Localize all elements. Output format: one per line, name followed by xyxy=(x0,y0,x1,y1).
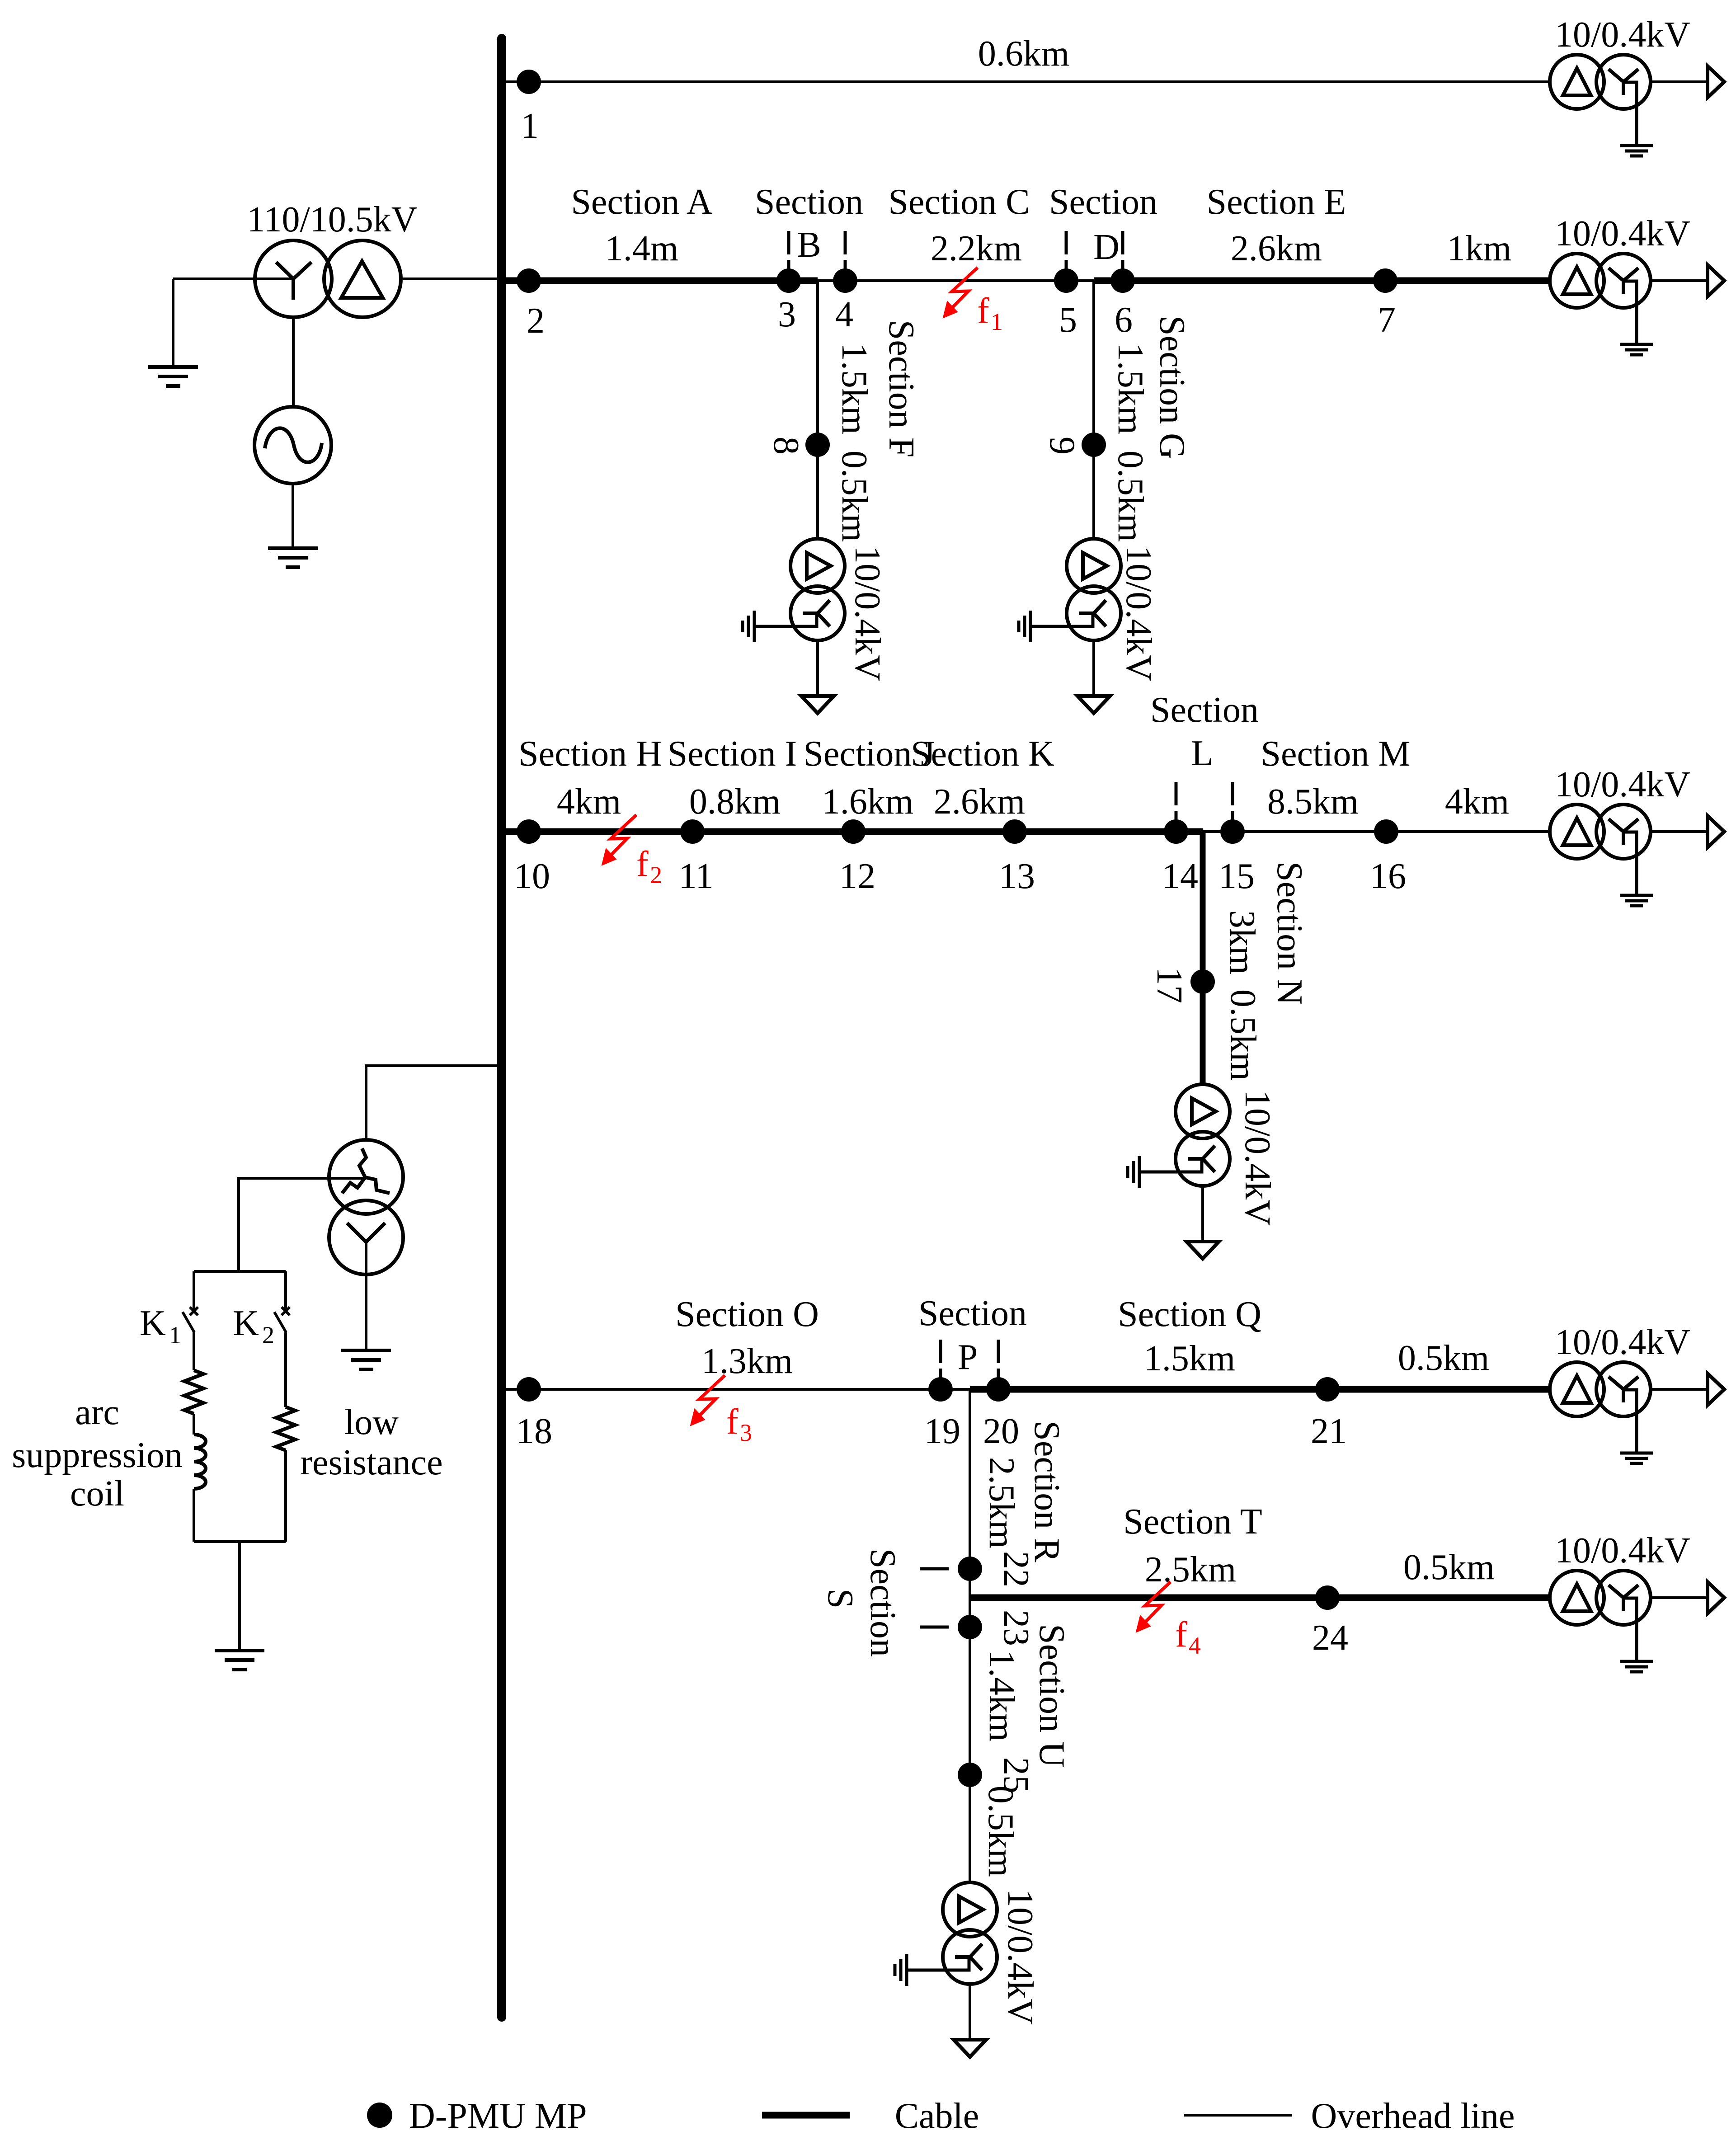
label K1 xyxy=(140,1303,181,1349)
svg-text:L: L xyxy=(1191,734,1214,773)
label 1km xyxy=(1447,229,1511,268)
wire feeder3 cable Sections H-K xyxy=(506,828,1203,835)
label Section Q xyxy=(1118,1294,1261,1378)
svg-text:17: 17 xyxy=(1149,967,1189,1003)
svg-text:4: 4 xyxy=(835,295,853,334)
fault f4 lightning arrow xyxy=(1136,1582,1171,1632)
node 1 D-PMU MP xyxy=(517,70,541,94)
label node 13 xyxy=(999,856,1035,896)
svg-text:1.3km: 1.3km xyxy=(701,1341,793,1381)
node 8 D-PMU MP xyxy=(805,433,830,457)
label 10/0.4kV feeder5 xyxy=(1555,1531,1690,1571)
wire T0 neutral to generator xyxy=(292,317,295,407)
svg-text:0.5km: 0.5km xyxy=(834,451,874,542)
svg-text:Section N: Section N xyxy=(1270,861,1309,1005)
svg-text:2: 2 xyxy=(650,861,662,889)
svg-text:21: 21 xyxy=(1311,1411,1347,1451)
svg-text:4km: 4km xyxy=(557,782,621,822)
main 10.5kV busbar xyxy=(497,38,506,2017)
label Section C xyxy=(888,182,1030,268)
wire generator to ground xyxy=(292,484,294,548)
node 11 D-PMU MP xyxy=(680,819,705,844)
svg-text:Section: Section xyxy=(1049,182,1157,222)
svg-text:Section: Section xyxy=(918,1294,1027,1333)
node 24 D-PMU MP xyxy=(1315,1585,1340,1610)
ground generator neutral xyxy=(268,548,318,567)
label node 7 xyxy=(1378,300,1396,340)
svg-text:Section M: Section M xyxy=(1261,734,1410,774)
svg-text:10/0.4kV: 10/0.4kV xyxy=(1555,765,1690,804)
svg-text:0.5km: 0.5km xyxy=(981,1786,1021,1877)
node 9 D-PMU MP xyxy=(1082,433,1106,457)
svg-text:0.5km: 0.5km xyxy=(1398,1338,1489,1378)
label node 11 xyxy=(678,856,713,896)
svg-text:f: f xyxy=(636,844,649,884)
label 0.5km branch F xyxy=(834,451,874,542)
svg-text:suppression: suppression xyxy=(12,1435,183,1475)
svg-text:1.4km: 1.4km xyxy=(982,1650,1021,1741)
label node 25 xyxy=(996,1757,1036,1793)
svg-text:Section E: Section E xyxy=(1207,182,1346,222)
svg-text:Section Q: Section Q xyxy=(1118,1294,1261,1334)
label node 6 xyxy=(1115,300,1133,340)
node 20 D-PMU MP xyxy=(986,1377,1011,1402)
svg-text:20: 20 xyxy=(983,1411,1019,1451)
svg-text:Overhead line: Overhead line xyxy=(1311,2096,1515,2136)
node 21 D-PMU MP xyxy=(1315,1377,1340,1402)
node 2 D-PMU MP xyxy=(517,268,541,293)
label Section U xyxy=(1032,1624,1072,1768)
wire feeder2 overhead Section C xyxy=(818,279,1094,282)
transformer TR3 10/0.4kV with ground and load arrow xyxy=(1550,804,1724,906)
svg-text:110/10.5kV: 110/10.5kV xyxy=(247,200,417,240)
label 10/0.4kV feeder1 xyxy=(1555,15,1690,55)
label Section O xyxy=(675,1294,819,1381)
svg-text:4km: 4km xyxy=(1445,782,1509,822)
label Section M xyxy=(1261,734,1410,822)
label 2.5km Section R xyxy=(982,1457,1021,1548)
svg-text:23: 23 xyxy=(996,1610,1036,1646)
label Section N xyxy=(1270,861,1309,1005)
label 10/0.4kV branch G xyxy=(1119,546,1158,681)
wire feeder1 overhead line 0.6km xyxy=(506,80,1550,83)
svg-text:1: 1 xyxy=(521,106,539,146)
label node 1 xyxy=(521,106,539,146)
switch K1 blade xyxy=(183,1312,194,1332)
label node 8 xyxy=(766,437,806,455)
label Section R xyxy=(1027,1421,1067,1562)
node 19 D-PMU MP xyxy=(928,1377,953,1402)
svg-text:10/0.4kV: 10/0.4kV xyxy=(1119,546,1158,681)
transformer TRF 10/0.4kV with ground and load arrow xyxy=(743,539,845,713)
fault f3 lightning arrow xyxy=(691,1375,725,1425)
label f3 xyxy=(726,1402,752,1446)
svg-text:10/0.4kV: 10/0.4kV xyxy=(1555,15,1690,55)
svg-text:1.6km: 1.6km xyxy=(822,782,913,822)
svg-text:1km: 1km xyxy=(1447,229,1511,268)
svg-text:1: 1 xyxy=(169,1322,181,1349)
svg-text:Cable: Cable xyxy=(895,2096,979,2136)
label Section G xyxy=(1152,315,1192,459)
ground grounding-transformer neutral xyxy=(341,1350,391,1369)
wire branch Section N cable xyxy=(1200,832,1206,1084)
label 10/0.4kV feeder3 xyxy=(1555,765,1690,804)
transformer TRU 10/0.4kV with ground and load arrow xyxy=(895,1882,997,2057)
transformer T0 delta winding symbol xyxy=(341,261,383,298)
label node 3 xyxy=(778,295,796,334)
resistor of arc suppression branch xyxy=(184,1370,203,1414)
node 4 D-PMU MP xyxy=(833,268,857,293)
wire feeder2 cable Section A-B xyxy=(506,278,818,284)
wire HV-in to transformer Y centre xyxy=(173,278,293,280)
svg-text:3: 3 xyxy=(778,295,796,334)
label 1.5km Section F xyxy=(834,343,874,434)
legend label Overhead line xyxy=(1311,2096,1515,2136)
label node 12 xyxy=(839,856,875,896)
svg-text:2.6km: 2.6km xyxy=(934,782,1025,822)
svg-text:K: K xyxy=(140,1303,166,1343)
label node 17 xyxy=(1149,967,1189,1003)
svg-text:0.5km: 0.5km xyxy=(1223,989,1263,1081)
svg-text:Section K: Section K xyxy=(911,734,1054,774)
label Section E xyxy=(1207,182,1346,268)
inductor arc suppression coil xyxy=(194,1435,206,1489)
label Section K xyxy=(911,734,1054,822)
label 110/10.5kV xyxy=(247,200,417,240)
fault f1 lightning arrow xyxy=(943,268,978,318)
generator G1 circle xyxy=(254,407,331,484)
label f2 xyxy=(636,844,662,889)
svg-text:13: 13 xyxy=(999,856,1035,896)
label node 19 xyxy=(924,1411,960,1451)
wire branch Section F xyxy=(816,281,819,539)
label f4 xyxy=(1175,1615,1201,1659)
grounding transformer secondary circle (Y) xyxy=(329,1200,403,1275)
wire K1 stub xyxy=(193,1271,195,1310)
label 0.5km branch N xyxy=(1223,989,1263,1081)
transformer TRG 10/0.4kV with ground and load arrow xyxy=(1019,539,1121,713)
svg-text:1.4m: 1.4m xyxy=(605,229,678,268)
label 4km right xyxy=(1445,782,1509,822)
svg-text:B: B xyxy=(797,225,821,265)
svg-text:P: P xyxy=(958,1337,978,1377)
label 0.5km branch G xyxy=(1110,451,1150,542)
svg-text:0.5km: 0.5km xyxy=(1110,451,1150,542)
svg-text:Section: Section xyxy=(863,1548,903,1657)
svg-text:0.6km: 0.6km xyxy=(978,34,1069,74)
svg-text:2: 2 xyxy=(527,301,545,341)
svg-text:4: 4 xyxy=(1189,1632,1201,1659)
label 10/0.4kV branch U xyxy=(1000,1889,1040,2025)
svg-text:0.8km: 0.8km xyxy=(689,782,781,822)
svg-text:10/0.4kV: 10/0.4kV xyxy=(1555,1322,1690,1362)
wire branch Section G xyxy=(1092,281,1095,539)
transformer TR4 10/0.4kV with ground and load arrow xyxy=(1550,1362,1724,1463)
svg-text:Section G: Section G xyxy=(1152,315,1192,459)
svg-text:f: f xyxy=(1175,1615,1187,1655)
label K2 xyxy=(233,1303,274,1349)
node 3 D-PMU MP xyxy=(776,268,801,293)
svg-text:8.5km: 8.5km xyxy=(1267,782,1359,822)
svg-text:19: 19 xyxy=(924,1411,960,1451)
label Section S xyxy=(820,1548,903,1657)
legend label Cable xyxy=(895,2096,979,2136)
svg-text:f: f xyxy=(726,1402,739,1442)
svg-text:resistance: resistance xyxy=(300,1443,442,1482)
svg-text:10: 10 xyxy=(514,856,550,896)
switch K1 contact mark xyxy=(190,1307,198,1315)
node 14 D-PMU MP xyxy=(1164,819,1188,844)
label 10/0.4kV branch N xyxy=(1237,1090,1277,1226)
node 6 D-PMU MP xyxy=(1110,268,1135,293)
svg-text:7: 7 xyxy=(1378,300,1396,340)
label f1 xyxy=(977,291,1003,335)
svg-text:5: 5 xyxy=(1059,300,1077,340)
label 1.4km Section U xyxy=(982,1650,1021,1741)
svg-text:S: S xyxy=(820,1589,860,1609)
wire K2 to resistor xyxy=(284,1332,287,1407)
label 0.6km xyxy=(978,34,1069,74)
svg-text:12: 12 xyxy=(839,856,875,896)
svg-text:10/0.4kV: 10/0.4kV xyxy=(847,546,887,681)
node 10 D-PMU MP xyxy=(517,819,541,844)
svg-text:K: K xyxy=(233,1303,259,1343)
wire Y neutral to ground xyxy=(365,1242,367,1350)
svg-text:Section I: Section I xyxy=(668,734,797,774)
node 17 D-PMU MP xyxy=(1190,969,1215,994)
transformer TR1 10/0.4kV with ground and load arrow xyxy=(1550,55,1724,156)
svg-text:2.5km: 2.5km xyxy=(982,1457,1021,1548)
label Section I xyxy=(668,734,797,822)
svg-text:10/0.4kV: 10/0.4kV xyxy=(1237,1090,1277,1226)
svg-text:Section O: Section O xyxy=(675,1294,819,1334)
label Section B xyxy=(755,182,863,265)
svg-text:0.5km: 0.5km xyxy=(1403,1548,1495,1587)
label node 10 xyxy=(514,856,550,896)
wire parallel top bar xyxy=(194,1270,286,1273)
svg-text:15: 15 xyxy=(1218,856,1255,896)
svg-text:3: 3 xyxy=(740,1419,752,1446)
node 5 D-PMU MP xyxy=(1054,268,1078,293)
svg-text:1.5km: 1.5km xyxy=(834,343,874,434)
svg-text:D: D xyxy=(1093,227,1120,267)
label Section T xyxy=(1123,1502,1262,1590)
svg-text:11: 11 xyxy=(678,856,713,896)
svg-text:2.6km: 2.6km xyxy=(1231,229,1322,268)
label Section P xyxy=(918,1294,1027,1377)
svg-text:9: 9 xyxy=(1042,437,1082,455)
wire K2 stub xyxy=(284,1271,287,1310)
node 7 D-PMU MP xyxy=(1373,268,1397,293)
svg-text:low: low xyxy=(344,1402,399,1442)
svg-text:Section C: Section C xyxy=(888,182,1030,222)
switch K2 blade xyxy=(274,1312,286,1332)
svg-text:10/0.4kV: 10/0.4kV xyxy=(1555,1531,1690,1571)
svg-text:14: 14 xyxy=(1162,856,1198,896)
label 0.5km branch U xyxy=(981,1786,1021,1877)
section P boundary dashes xyxy=(941,1340,998,1379)
svg-text:16: 16 xyxy=(1370,856,1406,896)
switch K2 contact mark xyxy=(282,1307,290,1315)
svg-text:1.5km: 1.5km xyxy=(1144,1339,1235,1378)
svg-text:18: 18 xyxy=(516,1411,552,1451)
svg-text:Section F: Section F xyxy=(881,320,921,457)
label 0.5km feeder4 xyxy=(1398,1338,1489,1378)
label 3km Section N xyxy=(1222,910,1262,974)
section D boundary dashes xyxy=(1066,231,1123,270)
svg-text:Section H: Section H xyxy=(518,734,662,774)
svg-text:2.2km: 2.2km xyxy=(931,229,1022,268)
svg-text:Section T: Section T xyxy=(1123,1502,1262,1542)
legend cable sample xyxy=(762,2112,850,2119)
label Section A xyxy=(571,182,713,268)
wire resistor to coil xyxy=(193,1414,195,1435)
node 15 D-PMU MP xyxy=(1220,819,1245,844)
svg-text:Section A: Section A xyxy=(571,182,713,222)
label 10/0.4kV feeder2 xyxy=(1555,214,1690,254)
label node 5 xyxy=(1059,300,1077,340)
generator G1 sine symbol xyxy=(265,428,322,462)
wire feeder2 cable Section D-E 1km xyxy=(1094,278,1550,284)
label Section F xyxy=(881,320,921,457)
wire parallel bottom bar xyxy=(194,1540,286,1543)
wire bottom bar to ground xyxy=(238,1542,241,1651)
node 22 D-PMU MP xyxy=(958,1557,982,1581)
label arc suppression coil xyxy=(12,1392,183,1514)
legend overhead line sample xyxy=(1184,2114,1292,2117)
wire T0 to busbar xyxy=(401,278,497,280)
label node 18 xyxy=(516,1411,552,1451)
svg-text:8: 8 xyxy=(766,437,806,455)
wire feeder3 overhead Section M 4km xyxy=(1203,830,1550,833)
label node 22 xyxy=(996,1551,1036,1587)
legend label D-PMU MP xyxy=(409,2096,587,2136)
svg-text:10/0.4kV: 10/0.4kV xyxy=(1000,1889,1040,2025)
label node 16 xyxy=(1370,856,1406,896)
svg-text:coil: coil xyxy=(70,1474,124,1514)
node 18 D-PMU MP xyxy=(517,1377,541,1402)
label node 15 xyxy=(1218,856,1255,896)
grounding transformer Y symbol xyxy=(347,1223,385,1242)
svg-text:arc: arc xyxy=(75,1392,119,1432)
label 1.5km Section G xyxy=(1110,343,1150,434)
label node 23 xyxy=(996,1610,1036,1646)
svg-text:3km: 3km xyxy=(1222,910,1262,974)
label node 21 xyxy=(1311,1411,1347,1451)
section B boundary dashes xyxy=(789,231,845,270)
svg-text:24: 24 xyxy=(1312,1618,1348,1658)
label Section H xyxy=(518,734,662,822)
ground of K branches xyxy=(215,1651,264,1670)
svg-text:1: 1 xyxy=(991,308,1003,335)
label node 9 xyxy=(1042,437,1082,455)
svg-text:2: 2 xyxy=(262,1322,274,1349)
svg-text:Section: Section xyxy=(1150,690,1259,730)
transformer T0 Y winding symbol xyxy=(276,262,311,300)
wire feeder5 cable Section T xyxy=(970,1595,1550,1601)
wire K2 resistor to bottom bar xyxy=(284,1450,287,1542)
grounding transformer crack symbol xyxy=(342,1148,390,1193)
fault f2 lightning arrow xyxy=(602,815,636,865)
wire K1 to coil branch xyxy=(193,1332,195,1370)
svg-text:6: 6 xyxy=(1115,300,1133,340)
svg-text:D-PMU MP: D-PMU MP xyxy=(409,2096,587,2136)
resistor low resistance branch xyxy=(276,1407,295,1450)
transformer TR5 10/0.4kV with ground and load arrow xyxy=(1550,1571,1724,1672)
node 12 D-PMU MP xyxy=(841,819,866,844)
wire branch Section S-U xyxy=(969,1598,971,1882)
svg-text:10/0.4kV: 10/0.4kV xyxy=(1555,214,1690,254)
label Section D xyxy=(1049,182,1157,267)
wire coil to bottom bar xyxy=(193,1489,195,1542)
label node 24 xyxy=(1312,1618,1348,1658)
node 16 D-PMU MP xyxy=(1374,819,1398,844)
transformer T0 primary circle (Y) xyxy=(255,240,332,317)
label node 14 xyxy=(1162,856,1198,896)
wire bus to grounding transformer xyxy=(366,1066,497,1141)
section L boundary dashes xyxy=(1176,782,1233,821)
transformer TRN 10/0.4kV with ground and load arrow xyxy=(1128,1084,1230,1259)
label node 2 xyxy=(527,301,545,341)
svg-text:f: f xyxy=(977,291,989,331)
svg-text:Section R: Section R xyxy=(1027,1421,1067,1562)
section S boundary dashes xyxy=(920,1569,957,1627)
label 10/0.4kV feeder4 xyxy=(1555,1322,1690,1362)
wire primary to K branch xyxy=(239,1178,366,1271)
wire HV ground drop xyxy=(172,279,174,367)
grounding transformer primary circle xyxy=(329,1140,403,1214)
svg-text:Section U: Section U xyxy=(1032,1624,1072,1768)
label node 4 xyxy=(835,295,853,334)
wire feeder4 overhead Section O xyxy=(506,1388,970,1391)
legend D-PMU MP dot xyxy=(367,2103,392,2128)
wire branch Section R xyxy=(969,1389,971,1598)
label 10/0.4kV branch F xyxy=(847,546,887,681)
label Section J xyxy=(803,734,935,822)
svg-text:Section: Section xyxy=(755,182,863,222)
label node 20 xyxy=(983,1411,1019,1451)
transformer TR2 10/0.4kV with ground and load arrow xyxy=(1550,254,1724,355)
node 25 D-PMU MP xyxy=(958,1763,982,1787)
node 13 D-PMU MP xyxy=(1002,819,1027,844)
svg-text:1.5km: 1.5km xyxy=(1110,343,1150,434)
label 0.5km feeder5 xyxy=(1403,1548,1495,1587)
wire feeder4 cable Section Q 0.5km xyxy=(970,1386,1550,1393)
ground HV neutral xyxy=(148,367,198,386)
label low resistance xyxy=(300,1402,442,1482)
node 23 D-PMU MP xyxy=(958,1615,982,1639)
transformer T0 secondary circle (delta) xyxy=(324,240,401,317)
label Section L xyxy=(1150,690,1259,773)
svg-text:2.5km: 2.5km xyxy=(1145,1550,1236,1590)
